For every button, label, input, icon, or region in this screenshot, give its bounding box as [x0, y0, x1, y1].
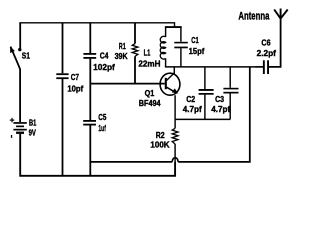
- svg-text:102pf: 102pf: [93, 62, 115, 72]
- svg-text:C1: C1: [191, 35, 199, 45]
- svg-text:100K: 100K: [150, 140, 169, 150]
- svg-text:C7: C7: [71, 72, 79, 82]
- svg-text:R1: R1: [119, 41, 126, 51]
- svg-text:10pf: 10pf: [67, 84, 83, 94]
- svg-text:9V: 9V: [29, 128, 37, 138]
- svg-text:1uf: 1uf: [98, 123, 106, 133]
- svg-text:39K: 39K: [115, 51, 128, 61]
- svg-text:Q1: Q1: [145, 88, 155, 98]
- svg-text:R2: R2: [156, 130, 165, 140]
- svg-text:L1: L1: [144, 47, 151, 57]
- svg-text:22mH: 22mH: [138, 58, 160, 68]
- svg-text:C4: C4: [100, 51, 109, 61]
- svg-text:C6: C6: [261, 37, 270, 47]
- svg-text:4.7pf: 4.7pf: [211, 104, 230, 114]
- svg-text:4.7pf: 4.7pf: [183, 104, 202, 114]
- svg-text:C5: C5: [98, 112, 106, 122]
- svg-text:C2: C2: [186, 94, 195, 104]
- svg-text:BF494: BF494: [139, 98, 161, 108]
- svg-text:C3: C3: [215, 94, 224, 104]
- svg-text:B1: B1: [29, 118, 37, 128]
- svg-text:2.2pf: 2.2pf: [257, 48, 276, 58]
- svg-text:15pf: 15pf: [189, 46, 205, 56]
- svg-text:S1: S1: [22, 51, 30, 61]
- svg-text:Antenna: Antenna: [238, 10, 269, 22]
